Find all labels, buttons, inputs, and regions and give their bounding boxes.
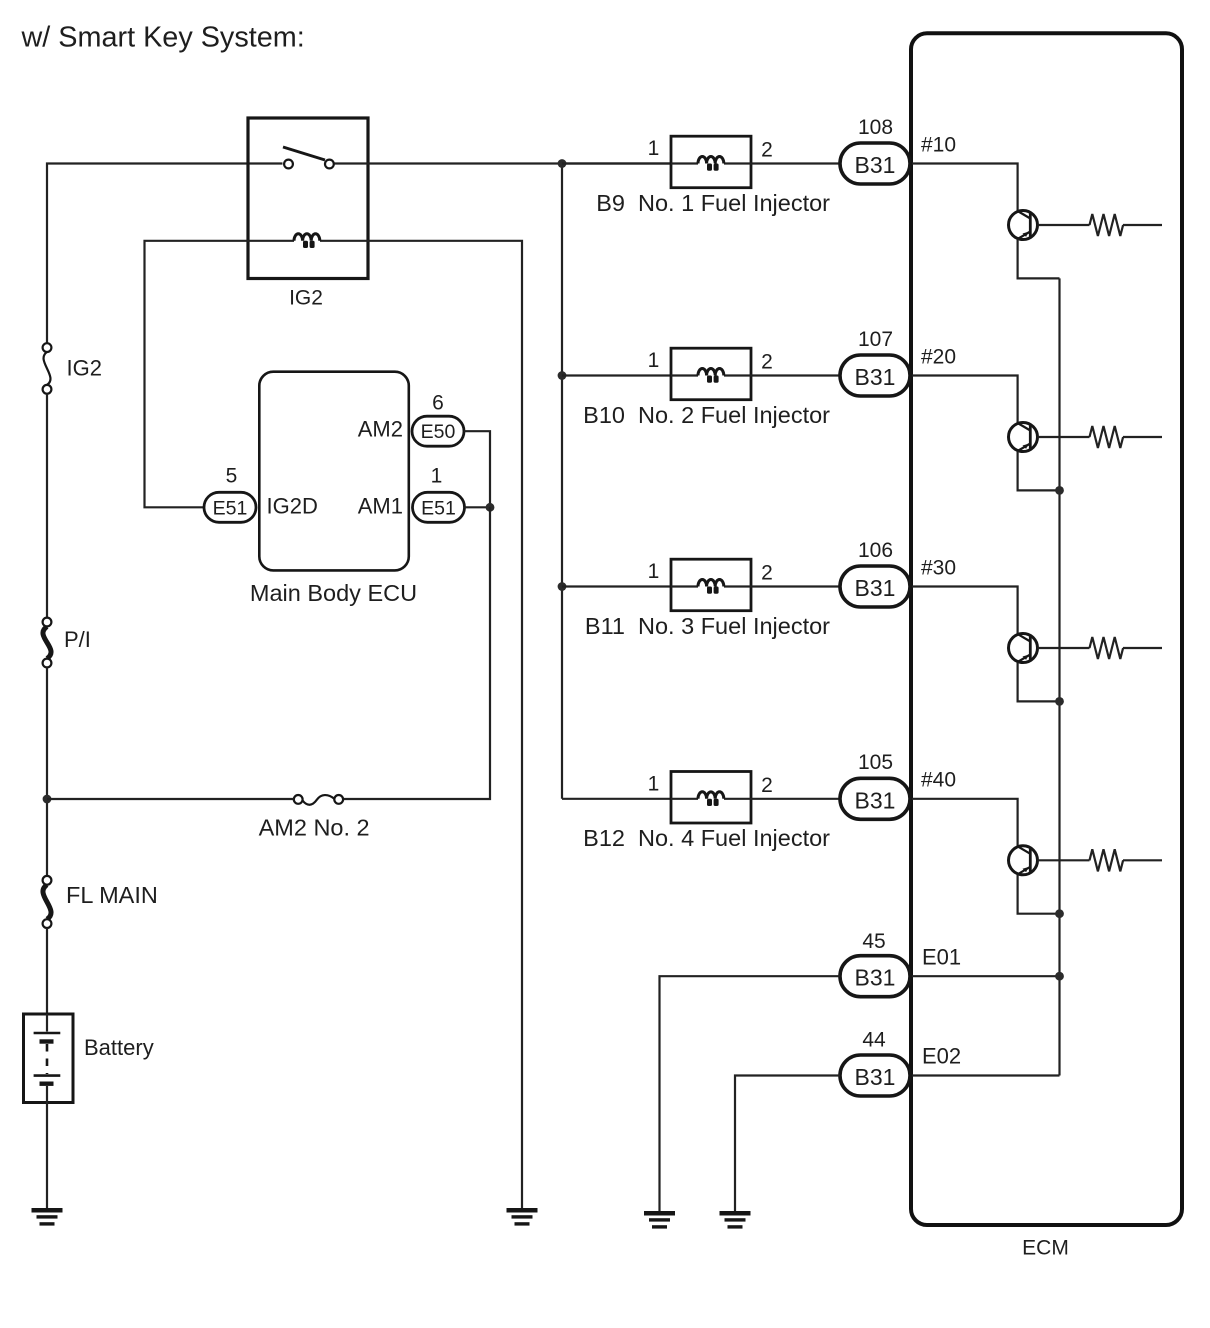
svg-text:B9: B9 <box>596 190 625 216</box>
connector E51 pin 1 <box>413 492 465 522</box>
svg-text:B31: B31 <box>855 152 896 178</box>
svg-text:1: 1 <box>648 772 660 795</box>
node AM1 junction <box>486 503 495 512</box>
svg-text:#20: #20 <box>921 345 956 368</box>
fusible link FL MAIN <box>43 876 52 928</box>
svg-text:2: 2 <box>761 774 773 797</box>
relay switch contacts <box>283 147 334 168</box>
svg-text:E01: E01 <box>922 944 961 969</box>
svg-text:AM2: AM2 <box>358 417 403 442</box>
svg-text:44: 44 <box>862 1028 886 1051</box>
svg-text:1: 1 <box>648 137 660 160</box>
wire E01 to ground <box>660 976 841 1211</box>
connector B31 row 1 <box>840 143 910 184</box>
svg-text:w/ Smart Key System:: w/ Smart Key System: <box>21 21 305 53</box>
resistor row 4 <box>1090 849 1124 871</box>
svg-text:E51: E51 <box>421 497 456 519</box>
svg-text:IG2D: IG2D <box>267 494 318 519</box>
svg-text:B31: B31 <box>855 965 896 991</box>
node E01 bus <box>1055 972 1064 981</box>
battery <box>24 1014 74 1103</box>
svg-text:Main Body ECU: Main Body ECU <box>250 580 417 606</box>
wire emitter to bus <box>1018 875 1060 914</box>
wire injector B12 to connector <box>751 798 840 800</box>
svg-text:#30: #30 <box>921 556 956 579</box>
node emitter bus row 2 <box>1055 486 1064 495</box>
wire transistor base to resistor <box>1038 224 1090 226</box>
wire resistor lead <box>1123 647 1162 649</box>
svg-text:45: 45 <box>862 930 885 953</box>
fuel injector B9 No. 1 <box>671 136 751 188</box>
wire left rail to fuse AM2 No.2 <box>47 798 294 800</box>
svg-text:No. 1 Fuel Injector: No. 1 Fuel Injector <box>638 190 830 216</box>
wire E51 pin1 to node <box>465 506 491 508</box>
Main Body ECU box <box>259 372 409 571</box>
svg-text:E50: E50 <box>421 421 456 443</box>
svg-text:IG2: IG2 <box>289 286 323 309</box>
wire emitter to bus <box>1018 240 1060 279</box>
svg-text:2: 2 <box>761 139 773 162</box>
fuel injector B11 No. 3 <box>671 559 751 611</box>
svg-text:6: 6 <box>432 391 444 414</box>
wire switch to injector row 1 <box>334 162 671 164</box>
svg-text:#10: #10 <box>921 133 956 156</box>
connector E50 pin 6 <box>412 416 464 446</box>
fusible link P/I <box>43 618 52 668</box>
svg-text:B31: B31 <box>855 1064 896 1090</box>
svg-text:1: 1 <box>431 465 443 488</box>
fuse AM2 No. 2 <box>294 795 343 805</box>
internal collector bus <box>1058 278 1060 1075</box>
wire injector feed bus vertical <box>561 164 563 799</box>
svg-text:B31: B31 <box>855 575 896 601</box>
wire transistor base to resistor <box>1038 647 1090 649</box>
wire FL MAIN to battery <box>46 928 48 1014</box>
connector B31 pin 44 E02 <box>840 1055 910 1096</box>
svg-text:2: 2 <box>761 351 773 374</box>
node bus row3 <box>558 582 567 591</box>
fuel injector B10 No. 2 <box>671 348 751 400</box>
svg-text:1: 1 <box>648 349 660 372</box>
svg-text:1: 1 <box>648 560 660 583</box>
svg-text:Battery: Battery <box>84 1035 154 1060</box>
svg-text:5: 5 <box>226 465 238 488</box>
wire bus to injector B12 <box>562 798 671 800</box>
svg-text:AM2 No. 2: AM2 No. 2 <box>259 814 370 840</box>
svg-text:E02: E02 <box>922 1044 961 1069</box>
svg-text:106: 106 <box>858 539 893 562</box>
transistor Q3 driver <box>1009 634 1038 663</box>
wire node down to AM2 No.2 row <box>343 507 490 799</box>
wire injector B11 to connector <box>751 585 840 587</box>
connector B31 pin 45 E01 <box>840 956 910 997</box>
svg-text:ECM: ECM <box>1022 1236 1069 1259</box>
svg-text:2: 2 <box>761 562 773 585</box>
wire transistor base to resistor <box>1038 859 1090 861</box>
wire P/I to FL MAIN <box>46 667 48 880</box>
ground E01 <box>644 1211 675 1229</box>
transistor Q4 driver <box>1009 846 1038 875</box>
wire injector B9 to connector <box>751 162 840 164</box>
wire E50 to vertical drop <box>464 431 490 507</box>
connector B31 row 3 <box>840 566 910 607</box>
wire ECM pin #20 to transistor <box>912 376 1018 423</box>
ECM box <box>911 33 1182 1225</box>
svg-text:No. 3 Fuel Injector: No. 3 Fuel Injector <box>638 613 830 639</box>
svg-text:AM1: AM1 <box>358 494 403 519</box>
node bus row2 <box>558 371 567 380</box>
node junction left rail / AM2 No.2 <box>43 795 52 804</box>
svg-text:P/I: P/I <box>64 627 91 652</box>
wire relay coil right down to ground <box>368 241 522 1208</box>
svg-text:B31: B31 <box>855 364 896 390</box>
wire E02 internal to bus <box>912 1074 1060 1076</box>
wire bus to injector B9 <box>562 162 671 164</box>
svg-text:No. 2 Fuel Injector: No. 2 Fuel Injector <box>638 402 830 428</box>
wire resistor lead <box>1123 859 1162 861</box>
wire bus to injector B11 <box>562 585 671 587</box>
ground E02 <box>720 1211 751 1229</box>
wire emitter to bus <box>1018 663 1060 702</box>
transistor Q1 driver <box>1009 211 1038 240</box>
svg-text:B31: B31 <box>855 787 896 813</box>
svg-text:E51: E51 <box>213 497 248 519</box>
svg-text:#40: #40 <box>921 769 956 792</box>
resistor row 3 <box>1090 637 1124 659</box>
svg-text:No. 4 Fuel Injector: No. 4 Fuel Injector <box>638 825 830 851</box>
wire ECM pin #30 to transistor <box>912 587 1018 634</box>
svg-text:107: 107 <box>858 328 893 351</box>
wire ECM pin #10 to transistor <box>912 164 1018 211</box>
svg-text:108: 108 <box>858 116 893 139</box>
fuse IG2 <box>43 343 52 393</box>
wire E01 internal to bus <box>912 975 1060 977</box>
wire injector B10 to connector <box>751 374 840 376</box>
resistor row 2 <box>1090 426 1124 448</box>
wire transistor base to resistor <box>1038 436 1090 438</box>
wire between fuse IG2 and fuse P/I <box>46 394 48 618</box>
resistor row 1 <box>1090 214 1124 236</box>
wire resistor lead <box>1123 224 1162 226</box>
transistor Q2 driver <box>1009 423 1038 452</box>
svg-text:IG2: IG2 <box>67 356 102 381</box>
svg-text:105: 105 <box>858 751 893 774</box>
relay coil IG2 <box>248 234 368 248</box>
wire resistor lead <box>1123 436 1162 438</box>
wire emitter to bus <box>1018 452 1060 491</box>
fuel injector B12 No. 4 <box>671 772 751 824</box>
wire E02 to ground <box>735 1076 840 1212</box>
connector B31 row 4 <box>840 778 910 819</box>
ground coil return <box>507 1208 538 1226</box>
node emitter bus row 4 <box>1055 909 1064 918</box>
wire ECM pin #40 to transistor <box>912 799 1018 846</box>
wire bus to injector B10 <box>562 374 671 376</box>
svg-text:B11: B11 <box>585 613 625 639</box>
wire left rail top horizontal to relay <box>47 164 283 344</box>
connector E51 pin 5 <box>204 492 256 522</box>
relay IG2 box <box>248 118 368 279</box>
connector B31 row 2 <box>840 355 910 396</box>
svg-text:B10: B10 <box>583 402 625 428</box>
node emitter bus row 3 <box>1055 697 1064 706</box>
node bus row1 <box>558 159 567 168</box>
wire relay coil left to E51 pin 5 <box>145 241 249 508</box>
svg-text:FL MAIN: FL MAIN <box>66 882 158 908</box>
wire battery to ground <box>46 1103 48 1209</box>
svg-text:B12: B12 <box>583 825 625 851</box>
ground battery <box>32 1208 63 1226</box>
